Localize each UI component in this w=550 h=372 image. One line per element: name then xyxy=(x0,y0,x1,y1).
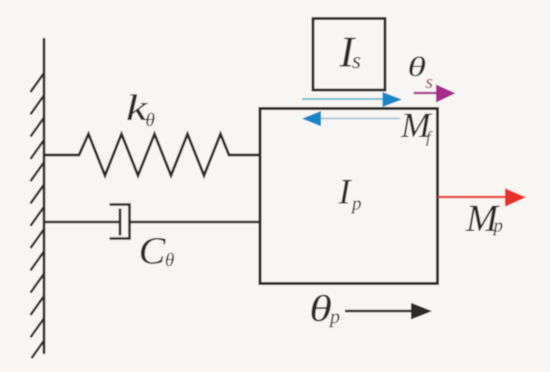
damper cylinder xyxy=(110,205,130,239)
red arrow M_p shaft xyxy=(438,196,508,198)
purple arrow shaft xyxy=(414,92,441,94)
spring label k xyxy=(127,94,148,120)
subscript p of I_p xyxy=(351,201,361,214)
blue right arrow shaft xyxy=(302,98,386,100)
damper label subscript theta xyxy=(166,253,174,266)
cyan left arrow shaft xyxy=(318,118,400,120)
damper piston xyxy=(119,209,122,236)
wall hatching xyxy=(31,73,45,358)
cyan left arrow head xyxy=(302,111,321,126)
black arrow theta_p shaft xyxy=(345,310,414,313)
spring k_theta xyxy=(44,134,260,176)
mass label I_s xyxy=(339,38,356,67)
black arrow theta_p head xyxy=(411,303,432,320)
subscript p of theta_p xyxy=(329,314,340,328)
subscript s of theta_s xyxy=(426,79,433,88)
theta_s label xyxy=(409,57,425,77)
mass label I_p xyxy=(338,180,352,204)
mass block I_s xyxy=(313,19,385,91)
mass block I_p xyxy=(260,109,438,284)
red arrow M_p head xyxy=(505,188,526,206)
spring label subscript theta xyxy=(146,113,154,126)
label M_p xyxy=(466,206,500,231)
subscript p of M_p xyxy=(492,223,502,236)
blue right arrow head xyxy=(383,92,403,107)
theta_p label xyxy=(312,295,331,322)
label M_f xyxy=(401,114,433,137)
purple arrow head xyxy=(436,85,456,103)
subscript f of M_f xyxy=(426,131,432,146)
wall vertical line xyxy=(43,38,46,354)
subscript s of I_s xyxy=(352,57,360,68)
damper rod right xyxy=(130,221,261,223)
damper label C xyxy=(141,238,166,264)
damper rod left xyxy=(44,221,120,223)
